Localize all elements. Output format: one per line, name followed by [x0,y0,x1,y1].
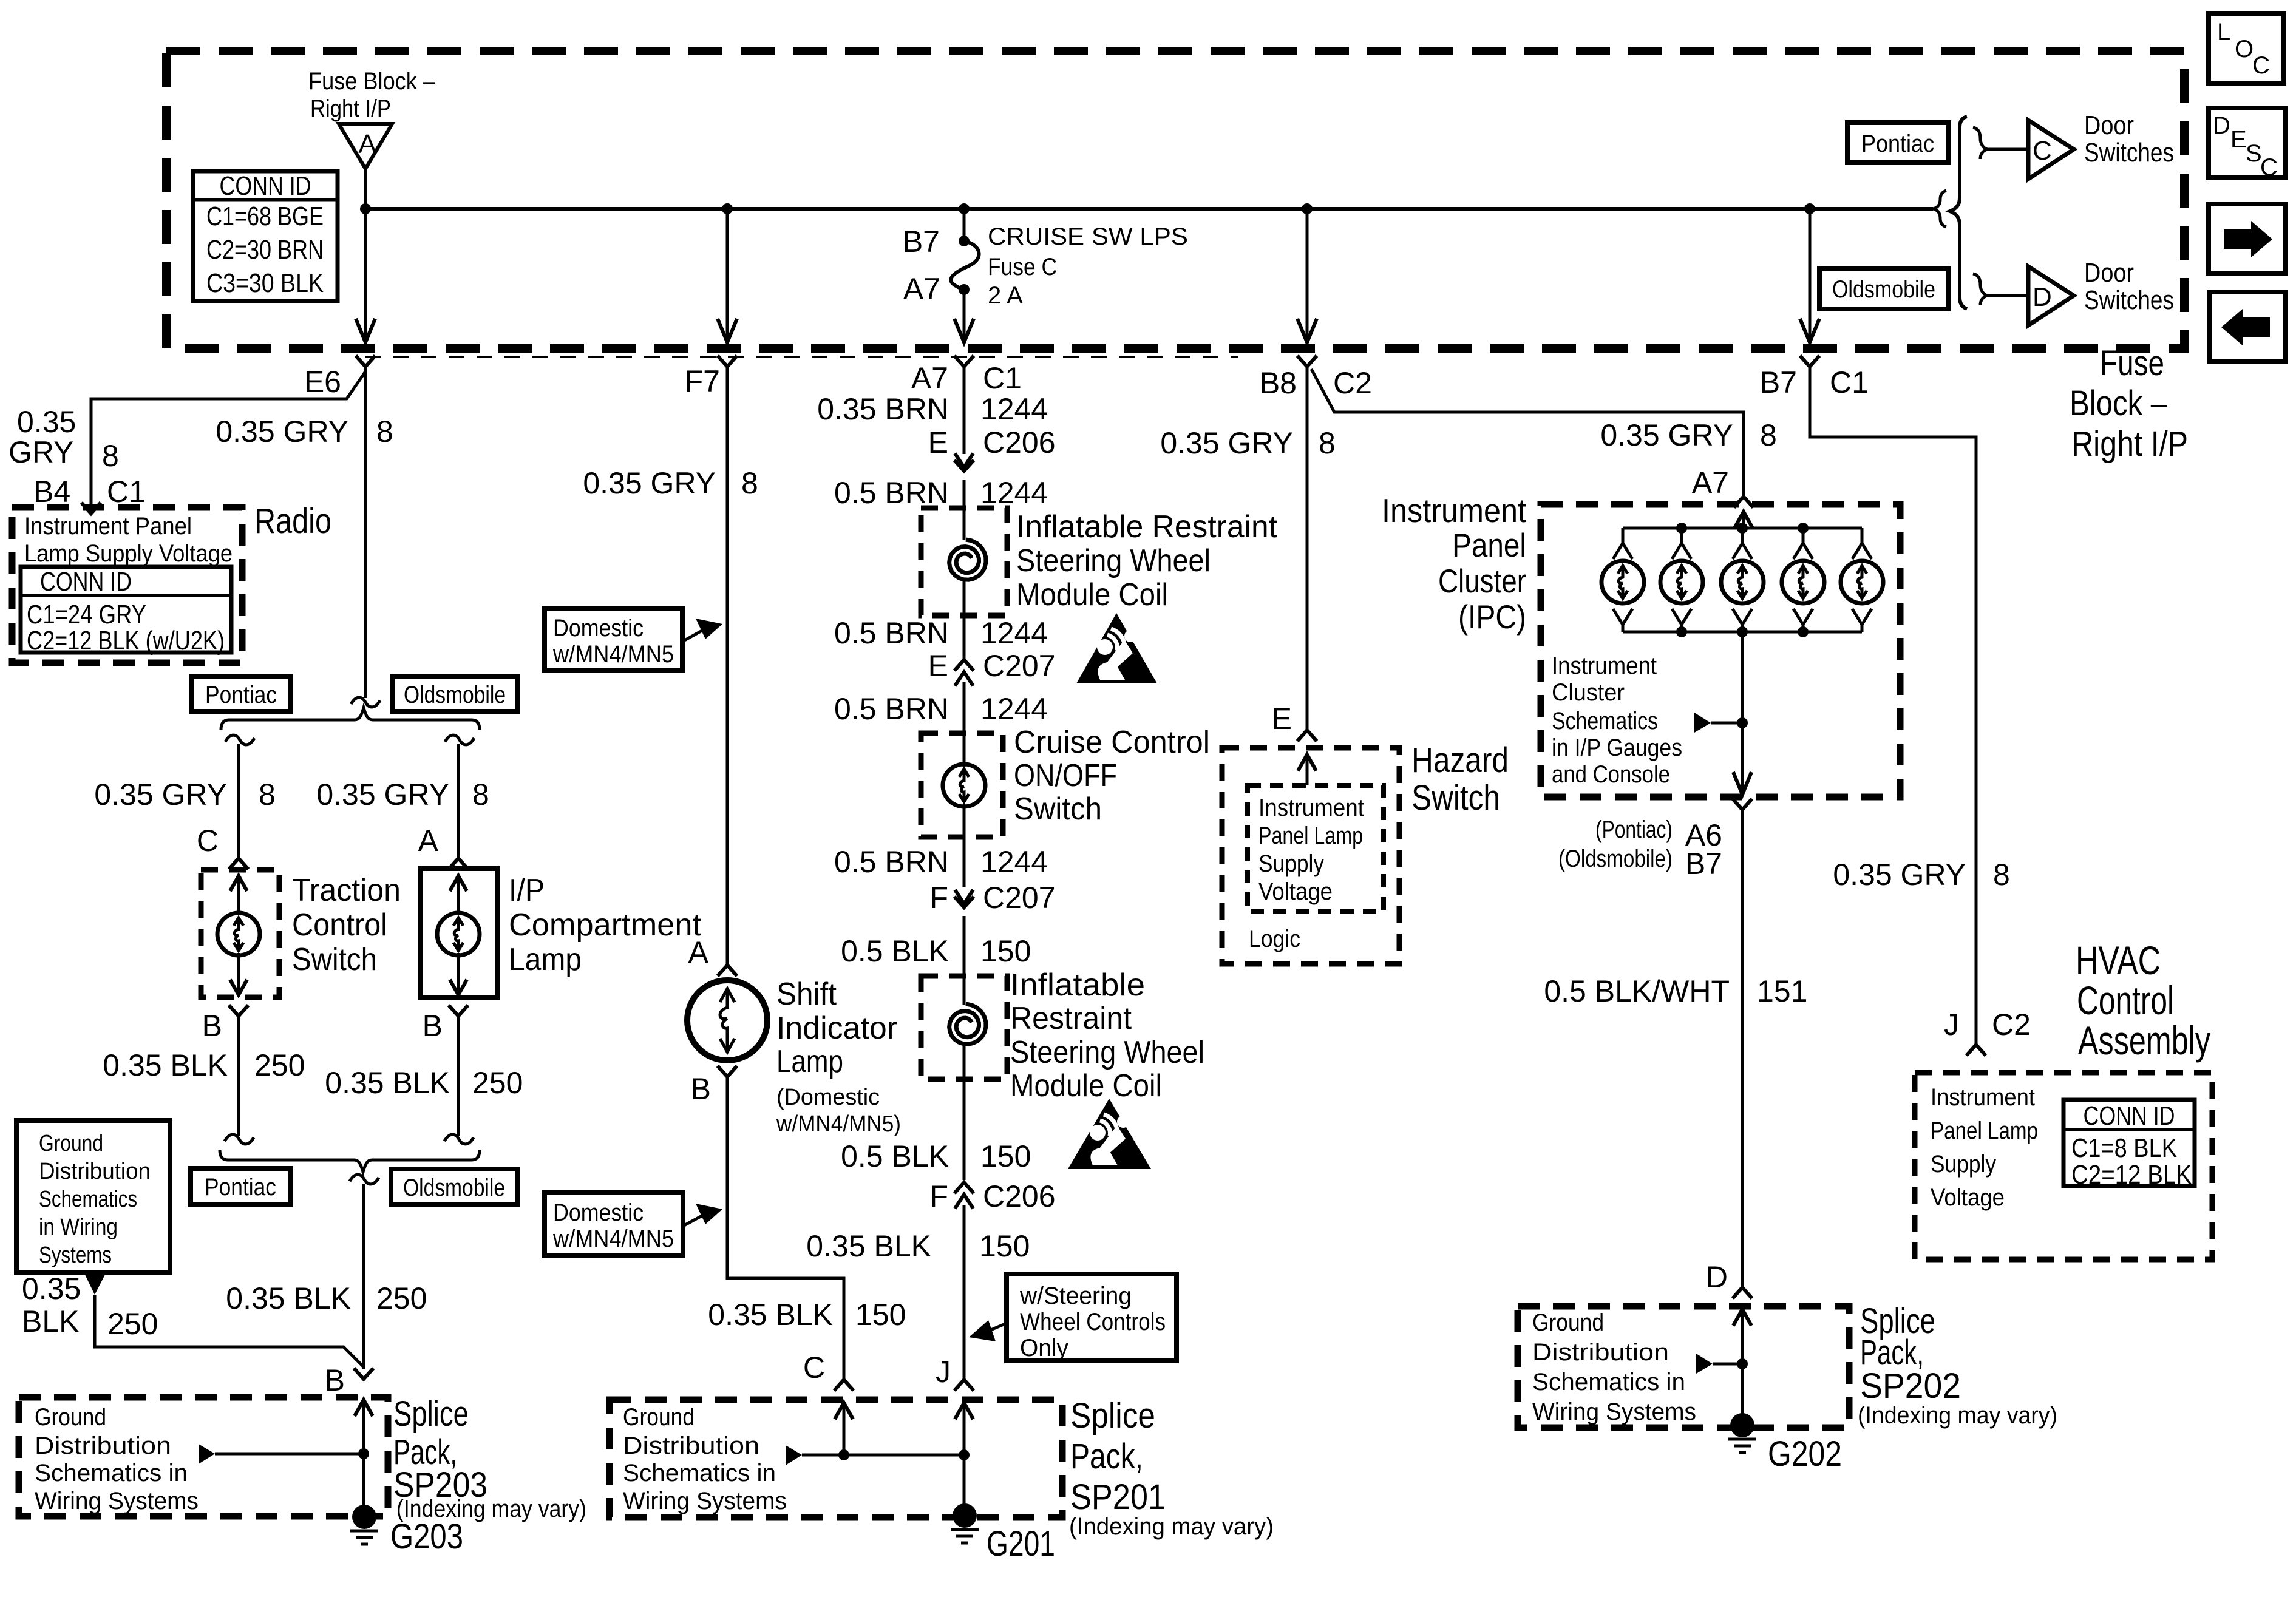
svg-text:O: O [2235,36,2254,63]
CONN ID table (fuse block) [193,171,338,301]
brace curl lower arm [1973,274,1988,305]
svg-text:CONN ID: CONN ID [220,171,311,201]
fuse block dashed outline (Fuse Block - Right I/P) [166,51,2184,348]
connector E chevron (hazard) [1297,730,1317,741]
svg-text:C1=24 GRY: C1=24 GRY [27,600,146,629]
svg-text:250: 250 [472,1066,523,1100]
svg-text:Fuse C: Fuse C [988,254,1057,280]
svg-text:(Domestic: (Domestic [776,1085,880,1110]
instrument panel cluster dashed box [1541,504,1900,797]
bus end curl at brace [1933,191,1946,227]
arrow into IPC [1734,512,1753,528]
svg-text:B: B [423,1009,443,1043]
svg-text:C1: C1 [1830,365,1869,399]
svg-text:E: E [928,425,948,459]
thin dashed connector line below fuse block [365,356,1238,358]
connector A chevron (shift lamp) [718,965,737,976]
IPC lamp 2 [1660,528,1703,632]
IPC lamp 1 [1601,528,1644,632]
node SP201 C [838,1449,849,1460]
lamp traction control illumination [217,913,260,955]
svg-text:Right I/P: Right I/P [310,95,391,122]
wire to door switches C [1988,148,2028,151]
hazard logic inner dashed box [1248,785,1384,912]
svg-text:0.35 GRY: 0.35 GRY [94,778,227,812]
svg-text:w/MN4/MN5: w/MN4/MN5 [552,641,674,668]
splice feed triangle (SP202) [1696,1354,1713,1374]
svg-text:8: 8 [1760,418,1777,452]
svg-text:Hazard: Hazard [1411,741,1509,780]
svg-text:Module Coil: Module Coil [1010,1068,1162,1103]
svg-text:Ground: Ground [39,1131,103,1156]
svg-text:Indicator: Indicator [776,1011,897,1046]
svg-text:Module Coil: Module Coil [1016,577,1168,612]
connector J chevron (SP201) [954,1380,974,1391]
svg-text:Right I/P: Right I/P [2071,424,2188,464]
arrow into SP201 (C) [835,1403,853,1419]
svg-text:1244: 1244 [980,692,1048,726]
wire IPC to SP202 D [1741,811,1744,1286]
big brace to door switch feeds [1950,117,1967,309]
svg-text:A: A [358,129,376,159]
svg-text:in I/P Gauges: in I/P Gauges [1552,734,1682,761]
svg-text:Schematics in: Schematics in [35,1460,188,1486]
svg-text:Switches: Switches [2084,285,2174,315]
radio dashed box (Instrument Panel Lamp Supply Voltage) [12,507,242,663]
svg-text:8: 8 [1319,426,1336,460]
connector B8/C2 chevron [1297,356,1317,367]
Pontiac tag (ground merge) [191,1168,291,1204]
svg-text:Systems: Systems [39,1242,112,1268]
svg-text:B: B [691,1072,711,1106]
svg-text:8: 8 [1993,858,2010,892]
wire compartment lamp B down [457,1015,460,1136]
svg-text:Schematics: Schematics [39,1187,137,1212]
svg-text:Domestic: Domestic [553,615,644,642]
svg-text:G202: G202 [1768,1434,1842,1474]
svg-text:C206: C206 [983,1179,1056,1213]
svg-text:Pack,: Pack, [1070,1437,1143,1476]
svg-text:w/Steering: w/Steering [1019,1283,1132,1309]
fuse C CRUISE SW LPS 2A [959,236,970,246]
svg-text:D: D [2213,112,2230,139]
svg-text:C3=30 BLK: C3=30 BLK [206,268,324,298]
wire branch E6 to radio B4 [91,371,365,512]
svg-text:(Oldsmobile): (Oldsmobile) [1558,846,1673,872]
Oldsmobile tag (ground merge) [391,1169,517,1204]
svg-text:C2: C2 [1992,1008,2031,1042]
ground G203 [352,1505,376,1529]
wire to door switches D [1988,294,2028,297]
svg-text:151: 151 [1757,974,1807,1008]
svg-text:Distribution: Distribution [39,1159,151,1184]
svg-text:Cluster: Cluster [1438,562,1526,600]
svg-text:(Indexing may vary): (Indexing may vary) [1069,1513,1274,1540]
svg-text:8: 8 [376,415,393,449]
svg-text:B7: B7 [903,225,940,259]
merge brace to ground run [220,1150,480,1172]
connector B chevron (compartment lamp) [449,1005,468,1016]
wire below fuse to box edge [963,290,966,342]
svg-text:Control: Control [2077,978,2174,1023]
wire C1 to HVAC J [1810,364,1976,1043]
wire E6 drop [364,209,367,342]
airbag caution triangle (lower) [1068,1099,1151,1169]
arrow into SP202 [1733,1309,1751,1326]
svg-text:C207: C207 [983,649,1056,683]
arrow into hazard switch [1298,754,1316,771]
svg-text:C2=30 BRN: C2=30 BRN [206,235,324,265]
lamp I/P compartment [437,913,480,955]
svg-text:0.5 BRN: 0.5 BRN [834,692,949,726]
svg-text:0.35 BLK: 0.35 BLK [806,1229,931,1263]
svg-text:HVAC: HVAC [2076,938,2161,983]
ground G201 [953,1503,977,1528]
svg-text:Instrument: Instrument [1552,653,1657,679]
svg-text:Panel: Panel [1452,526,1526,564]
Pontiac tag (radio split) [192,676,291,711]
I/P compartment lamp box [421,869,497,997]
ground G202 [1730,1413,1754,1437]
svg-text:0.35 BLK: 0.35 BLK [103,1048,228,1082]
svg-text:A: A [688,935,709,969]
svg-text:Pontiac: Pontiac [205,682,277,708]
CONN ID table (HVAC) [2063,1100,2195,1186]
svg-text:Domestic: Domestic [553,1199,644,1226]
wire B8 drop [1306,209,1309,342]
splice pack SP203 dashed box [19,1397,388,1516]
svg-text:Control: Control [292,907,387,943]
svg-text:C: C [2260,154,2278,181]
svg-text:Inflatable Restraint: Inflatable Restraint [1016,509,1278,544]
wire B8 to hazard switch [1306,364,1309,730]
svg-text:E: E [928,649,948,683]
svg-text:w/MN4/MN5: w/MN4/MN5 [552,1225,674,1252]
compartment wire end curl [444,1134,474,1144]
wire to SP201 J [963,1205,966,1380]
connector B chevron (traction) [229,1005,248,1016]
off-page triangle marker [85,1275,105,1295]
wire into compartment lamp [457,876,460,995]
svg-text:Shift: Shift [776,977,837,1012]
svg-text:150: 150 [980,934,1031,968]
svg-text:150: 150 [980,1139,1031,1173]
svg-text:0.35 BLK: 0.35 BLK [325,1066,450,1100]
Pontiac wire curl [225,735,254,745]
sidebar forward arrow button [2209,204,2285,274]
svg-text:and Console: and Console [1552,761,1670,788]
svg-text:A7: A7 [1692,466,1729,500]
svg-text:C: C [2033,136,2052,166]
splice feed triangle (SP203) [199,1444,215,1464]
svg-text:Pontiac: Pontiac [1861,131,1934,157]
svg-text:C206: C206 [983,425,1056,459]
svg-text:Cruise Control: Cruise Control [1014,725,1210,760]
svg-text:Oldsmobile: Oldsmobile [1832,276,1935,303]
node at F7 [722,203,733,214]
svg-text:Instrument: Instrument [1382,492,1526,529]
svg-text:Wiring Systems: Wiring Systems [623,1488,787,1514]
connector C chevron (SP201) [834,1380,854,1391]
wire F7 drop [726,209,729,342]
svg-text:0.5 BLK: 0.5 BLK [841,934,949,968]
svg-text:Wheel Controls: Wheel Controls [1020,1309,1166,1335]
svg-text:0.35 GRY: 0.35 GRY [1160,426,1293,460]
connector B chevron (SP203) [354,1368,373,1379]
svg-text:E6: E6 [304,365,341,399]
svg-text:Fuse Block –: Fuse Block – [308,68,436,95]
svg-text:C2: C2 [1333,366,1372,400]
node at B8 [1302,203,1313,214]
svg-text:(Indexing may vary): (Indexing may vary) [1858,1402,2057,1429]
svg-text:Ground: Ground [623,1404,695,1431]
svg-text:C1=68 BGE: C1=68 BGE [206,202,324,231]
svg-text:Instrument Panel: Instrument Panel [24,513,192,540]
svg-text:250: 250 [376,1281,427,1315]
wire fuse tap drop [963,209,966,241]
svg-text:Oldsmobile: Oldsmobile [404,682,506,708]
svg-text:Ground: Ground [35,1404,106,1431]
svg-text:Schematics: Schematics [1552,708,1658,734]
coil steering wheel module (upper) [949,540,986,580]
splice feed triangle (IPC) [1694,713,1711,733]
Oldsmobile tag (radio split) [392,676,517,711]
wire F7 to shift indicator lamp [726,364,729,965]
svg-text:8: 8 [741,466,758,500]
svg-text:in Wiring: in Wiring [39,1215,118,1240]
airbag caution triangle (upper) [1076,613,1157,683]
svg-text:0.35 GRY: 0.35 GRY [316,778,449,812]
svg-text:CRUISE SW LPS: CRUISE SW LPS [988,223,1188,250]
svg-text:(IPC): (IPC) [1458,598,1526,636]
splice pack SP201 dashed box [610,1400,1062,1517]
svg-text:Splice: Splice [1070,1396,1155,1436]
svg-text:Restraint: Restraint [1010,1001,1132,1036]
lamp cruise switch illumination [943,764,985,807]
svg-text:A7: A7 [911,361,948,395]
Oldsmobile tag (top) [1819,268,1948,309]
wire to module coil 1 [963,480,966,540]
radio wire end curl [351,697,380,707]
wire branch to splice pack B [95,1295,364,1367]
wire from triangle A to bus [364,169,367,209]
sidebar DESC button [2209,108,2285,178]
svg-text:C1=8 BLK: C1=8 BLK [2071,1133,2177,1163]
connector A7/C1 chevron (fuse column) [954,356,974,367]
svg-text:0.35 GRY: 0.35 GRY [583,466,716,500]
svg-text:Assembly: Assembly [2078,1018,2210,1063]
cruise control on/off switch dashed box [921,733,1003,837]
wire merged ground run [362,1184,365,1369]
svg-text:Distribution: Distribution [1532,1339,1669,1366]
svg-text:Panel Lamp: Panel Lamp [1258,822,1363,849]
connector B7/C1 chevron (right) [1800,356,1819,367]
svg-text:SP201: SP201 [1070,1477,1166,1517]
IPC lamp 5 [1841,528,1883,632]
wire into traction switch [237,876,240,995]
sidebar LOC button [2209,13,2284,83]
svg-text:0.35 BLK: 0.35 BLK [226,1281,351,1315]
brace splitting Pontiac/Oldsmobile [221,708,480,730]
svg-text:Switch: Switch [292,942,377,977]
wire shift lamp B to SP201 C [727,1076,844,1378]
svg-text:(Pontiac): (Pontiac) [1595,816,1673,843]
svg-text:Schematics in: Schematics in [1532,1369,1685,1395]
connector B4 chevron at radio [81,503,101,514]
callout arrow to F7 wire (upper) [682,630,703,642]
svg-text:Switch: Switch [1411,778,1500,818]
svg-text:B7: B7 [1760,365,1797,399]
svg-text:C: C [803,1351,825,1385]
svg-text:Radio: Radio [254,501,331,541]
IPC lamp 4 [1782,528,1824,632]
wire to module coil 2 [963,916,966,1005]
svg-text:Distribution: Distribution [623,1432,759,1459]
merged wire curl [350,1175,379,1184]
svg-text:Steering Wheel: Steering Wheel [1016,543,1211,578]
connector A7 chevron (IPC) [1734,497,1753,507]
wire E6 to radio splice brace [364,364,367,698]
svg-text:0.35: 0.35 [17,405,76,439]
svg-text:0.5 BRN: 0.5 BRN [834,616,949,650]
svg-text:Compartment: Compartment [509,907,702,943]
svg-text:w/MN4/MN5): w/MN4/MN5) [776,1111,901,1137]
svg-text:1244: 1244 [980,392,1048,426]
svg-text:1244: 1244 [980,476,1048,510]
IPC lamp top rail [1623,527,1862,530]
node SP203 [358,1448,369,1459]
Oldsmobile wire curl [445,735,474,745]
node at A [360,203,371,214]
wire IPC return [1741,632,1744,796]
Domestic w/MN4/MN5 tag (lower) [545,1193,683,1256]
svg-text:0.5 BRN: 0.5 BRN [834,476,949,510]
connector A chevron (compartment lamp) [449,858,468,869]
svg-text:SP202: SP202 [1860,1366,1961,1406]
wire Pontiac drop to traction control [237,744,240,857]
traction wire end curl [225,1134,254,1144]
svg-text:D: D [2033,282,2052,312]
svg-text:Schematics in: Schematics in [623,1460,776,1486]
svg-text:Only: Only [1020,1335,1068,1361]
inflatable restraint coil dashed box (upper) [921,508,1007,615]
svg-text:Traction: Traction [292,873,401,908]
svg-text:C: C [2252,52,2270,79]
svg-text:F: F [929,881,948,915]
svg-text:BLK: BLK [22,1304,80,1338]
svg-text:Steering Wheel: Steering Wheel [1010,1035,1204,1070]
CONN ID table (radio) [21,567,231,653]
splice feed triangle (SP201) [786,1445,802,1465]
triangle D door switches [2028,266,2074,325]
arrow out of IPC [1733,772,1751,795]
node at B7 [1804,203,1815,214]
svg-text:B7: B7 [1685,847,1722,881]
svg-text:Lamp: Lamp [509,942,582,977]
svg-text:G201: G201 [987,1524,1055,1564]
svg-text:150: 150 [855,1298,906,1332]
svg-text:Instrument: Instrument [1258,795,1364,821]
svg-text:B: B [202,1009,222,1043]
svg-text:0.35 BRN: 0.35 BRN [817,392,949,426]
svg-text:Wiring Systems: Wiring Systems [35,1488,199,1514]
svg-text:0.5 BLK: 0.5 BLK [841,1139,949,1173]
svg-text:1244: 1244 [980,845,1048,879]
connector E6 chevron [356,356,375,367]
lamp shift indicator [687,980,767,1060]
svg-text:C2=12 BLK (w/U2K): C2=12 BLK (w/U2K) [27,626,225,656]
svg-text:250: 250 [107,1307,158,1341]
svg-text:B4: B4 [33,475,70,509]
connector C chevron (traction switch) [229,858,248,869]
svg-text:1244: 1244 [980,616,1048,650]
svg-text:0.5 BRN: 0.5 BRN [834,845,949,879]
svg-text:Voltage: Voltage [1931,1184,2005,1211]
arrow into SP201 (J) [955,1403,973,1419]
svg-text:I/P: I/P [509,873,545,908]
w/Steering Wheel Controls Only note box [1007,1274,1177,1361]
svg-text:Ground: Ground [1532,1309,1604,1336]
triangle C door switches [2028,120,2074,179]
svg-text:D: D [1706,1260,1728,1294]
svg-text:E: E [2230,126,2247,153]
svg-text:Fuse: Fuse [2100,344,2164,383]
svg-text:Splice: Splice [393,1394,469,1434]
svg-text:Block –: Block – [2070,384,2168,423]
wire to cruise switch [963,682,966,767]
wire C2 branch to IPC A7 [1311,369,1744,495]
inflatable restraint coil dashed box (lower) [921,976,1007,1079]
callout arrow to J wire [987,1323,1007,1332]
connector D chevron (SP202) [1733,1287,1752,1298]
triangle A power feed [339,124,392,169]
svg-text:0.35 BLK: 0.35 BLK [708,1298,833,1332]
bus wire inside fuse block [365,207,1933,211]
Pontiac tag (top) [1847,123,1949,163]
splice pack SP202 dashed box [1518,1306,1849,1428]
svg-text:F7: F7 [685,364,720,398]
svg-text:Supply: Supply [1258,850,1324,877]
callout arrow to shift lamp wire (lower) [683,1215,703,1226]
svg-text:Pontiac: Pontiac [205,1174,276,1201]
svg-text:0.5 BLK/WHT: 0.5 BLK/WHT [1544,974,1730,1008]
svg-text:Logic: Logic [1249,926,1300,952]
svg-text:0.35 GRY: 0.35 GRY [1600,418,1733,452]
connector F7 chevron [718,356,737,367]
svg-text:Voltage: Voltage [1258,878,1333,905]
svg-text:250: 250 [254,1048,305,1082]
svg-text:B8: B8 [1260,366,1297,400]
svg-text:8: 8 [259,778,276,812]
hazard switch dashed box [1222,748,1399,964]
svg-text:C1: C1 [107,475,146,509]
svg-text:L: L [2217,19,2230,46]
svg-text:Oldsmobile: Oldsmobile [403,1175,505,1201]
svg-text:Switch: Switch [1014,792,1102,827]
svg-text:ON/OFF: ON/OFF [1014,758,1117,793]
svg-text:Door: Door [2084,110,2134,140]
svg-text:8: 8 [102,439,119,473]
svg-text:Wiring Systems: Wiring Systems [1532,1398,1696,1425]
svg-text:A: A [418,824,439,858]
IPC lamp bottom rail [1623,631,1862,634]
wire Oldsmobile drop to compartment lamp [457,744,460,857]
svg-text:Supply: Supply [1931,1151,1996,1178]
svg-text:Switches: Switches [2084,138,2174,168]
svg-text:F: F [929,1179,948,1213]
arrow into SP203 [355,1400,373,1416]
svg-text:0.35 GRY: 0.35 GRY [1833,858,1966,892]
